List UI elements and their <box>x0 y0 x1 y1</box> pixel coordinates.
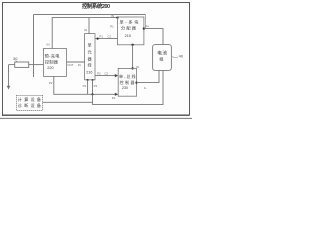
node at box210 top-left corner <box>116 16 118 18</box>
node 216 bottom pin 1 <box>87 79 89 81</box>
svg-text:220: 220 <box>47 66 53 70</box>
leader squiggle for 30 <box>16 61 20 63</box>
svg-text:210: 210 <box>125 34 131 38</box>
wire branch down to box 216 top <box>88 18 90 34</box>
svg-text:P1: P1 <box>110 24 114 28</box>
wire 216 P2 to 230 left with arrow <box>95 75 116 77</box>
svg-text:b-: b- <box>144 86 147 90</box>
svg-text:C1: C1 <box>108 34 112 38</box>
wire 220 right to 216 left <box>67 61 85 63</box>
node B+ on 210 right edge <box>143 27 145 29</box>
svg-text:组: 组 <box>159 56 163 62</box>
system boundary box 200 top edge <box>34 14 146 16</box>
box 230 controller <box>118 68 136 96</box>
wire battery right pin down and left (negative rail) <box>93 70 164 104</box>
system boundary box 200 right edge <box>145 15 147 29</box>
wire 220 bottom pin down then bus right into 230 with arrow <box>54 76 116 94</box>
wire input drop with arrow <box>8 65 10 87</box>
svg-text:P2: P2 <box>97 72 101 76</box>
box 216 selector (narrow, vertical text) <box>85 34 95 80</box>
node on wire <box>97 38 99 40</box>
svg-text:30: 30 <box>13 56 18 61</box>
svg-text:分配器: 分配器 <box>121 24 137 31</box>
svg-text:P2: P2 <box>49 81 53 85</box>
computing device dashed box <box>16 95 42 110</box>
svg-text:216: 216 <box>86 71 92 75</box>
wire resistor to box 220 <box>29 64 44 66</box>
wire B+ to battery top <box>144 29 163 45</box>
wire 216 pin2 down <box>92 80 94 95</box>
border frame <box>3 3 190 116</box>
svg-text:IN: IN <box>111 14 114 18</box>
svg-text:电池: 电池 <box>157 50 167 56</box>
svg-text:IN: IN <box>78 63 81 67</box>
svg-text:230: 230 <box>122 86 128 90</box>
svg-text:P1: P1 <box>100 34 104 38</box>
svg-text:IN: IN <box>84 28 87 32</box>
wire 210 bottom to 230 top <box>132 45 134 69</box>
wire dashed box to rail junction <box>43 101 93 103</box>
svg-text:D1: D1 <box>112 96 116 100</box>
resistor 30 box <box>15 62 29 67</box>
svg-text:C2: C2 <box>104 72 108 76</box>
box 220 pre-charge controller <box>43 49 66 77</box>
svg-text:OUT: OUT <box>67 63 73 67</box>
battery box 40 <box>153 45 172 71</box>
node B- on 230 right edge <box>135 82 137 84</box>
svg-text:40: 40 <box>179 54 184 59</box>
bottom rule <box>0 117 192 119</box>
system boundary box 200 left edge <box>33 15 35 78</box>
node on 210 bottom <box>131 44 133 46</box>
node on 230 top <box>131 67 133 69</box>
svg-text:IN: IN <box>47 43 50 47</box>
box 210 allocator <box>118 17 144 45</box>
svg-text:控制器: 控制器 <box>120 79 135 85</box>
svg-text:控制系统200: 控制系统200 <box>82 2 110 10</box>
label 40 with leader <box>172 57 178 58</box>
wire B- to battery bottom-left pin <box>137 70 160 82</box>
page background <box>0 0 192 120</box>
wire 216 pin1 down <box>87 80 89 95</box>
svg-text:控制器: 控制器 <box>45 58 59 65</box>
svg-text:P4: P4 <box>94 84 98 88</box>
svg-text:单-多块: 单-多块 <box>120 18 140 25</box>
svg-text:单-总线: 单-总线 <box>119 73 136 79</box>
svg-text:P3: P3 <box>83 84 87 88</box>
wire 216 right to box210 left <box>95 38 118 40</box>
wire bus to rail <box>92 94 94 104</box>
wire resistor left stub <box>9 64 15 66</box>
svg-text:b+: b+ <box>146 24 150 28</box>
svg-text:单: 单 <box>88 42 92 49</box>
node bus crossing <box>91 93 93 95</box>
node 216 bottom pin 2 <box>92 79 94 81</box>
svg-text:预-充电: 预-充电 <box>45 52 61 59</box>
wire top net: 220 top pin up and right to box210 corner <box>52 18 117 49</box>
